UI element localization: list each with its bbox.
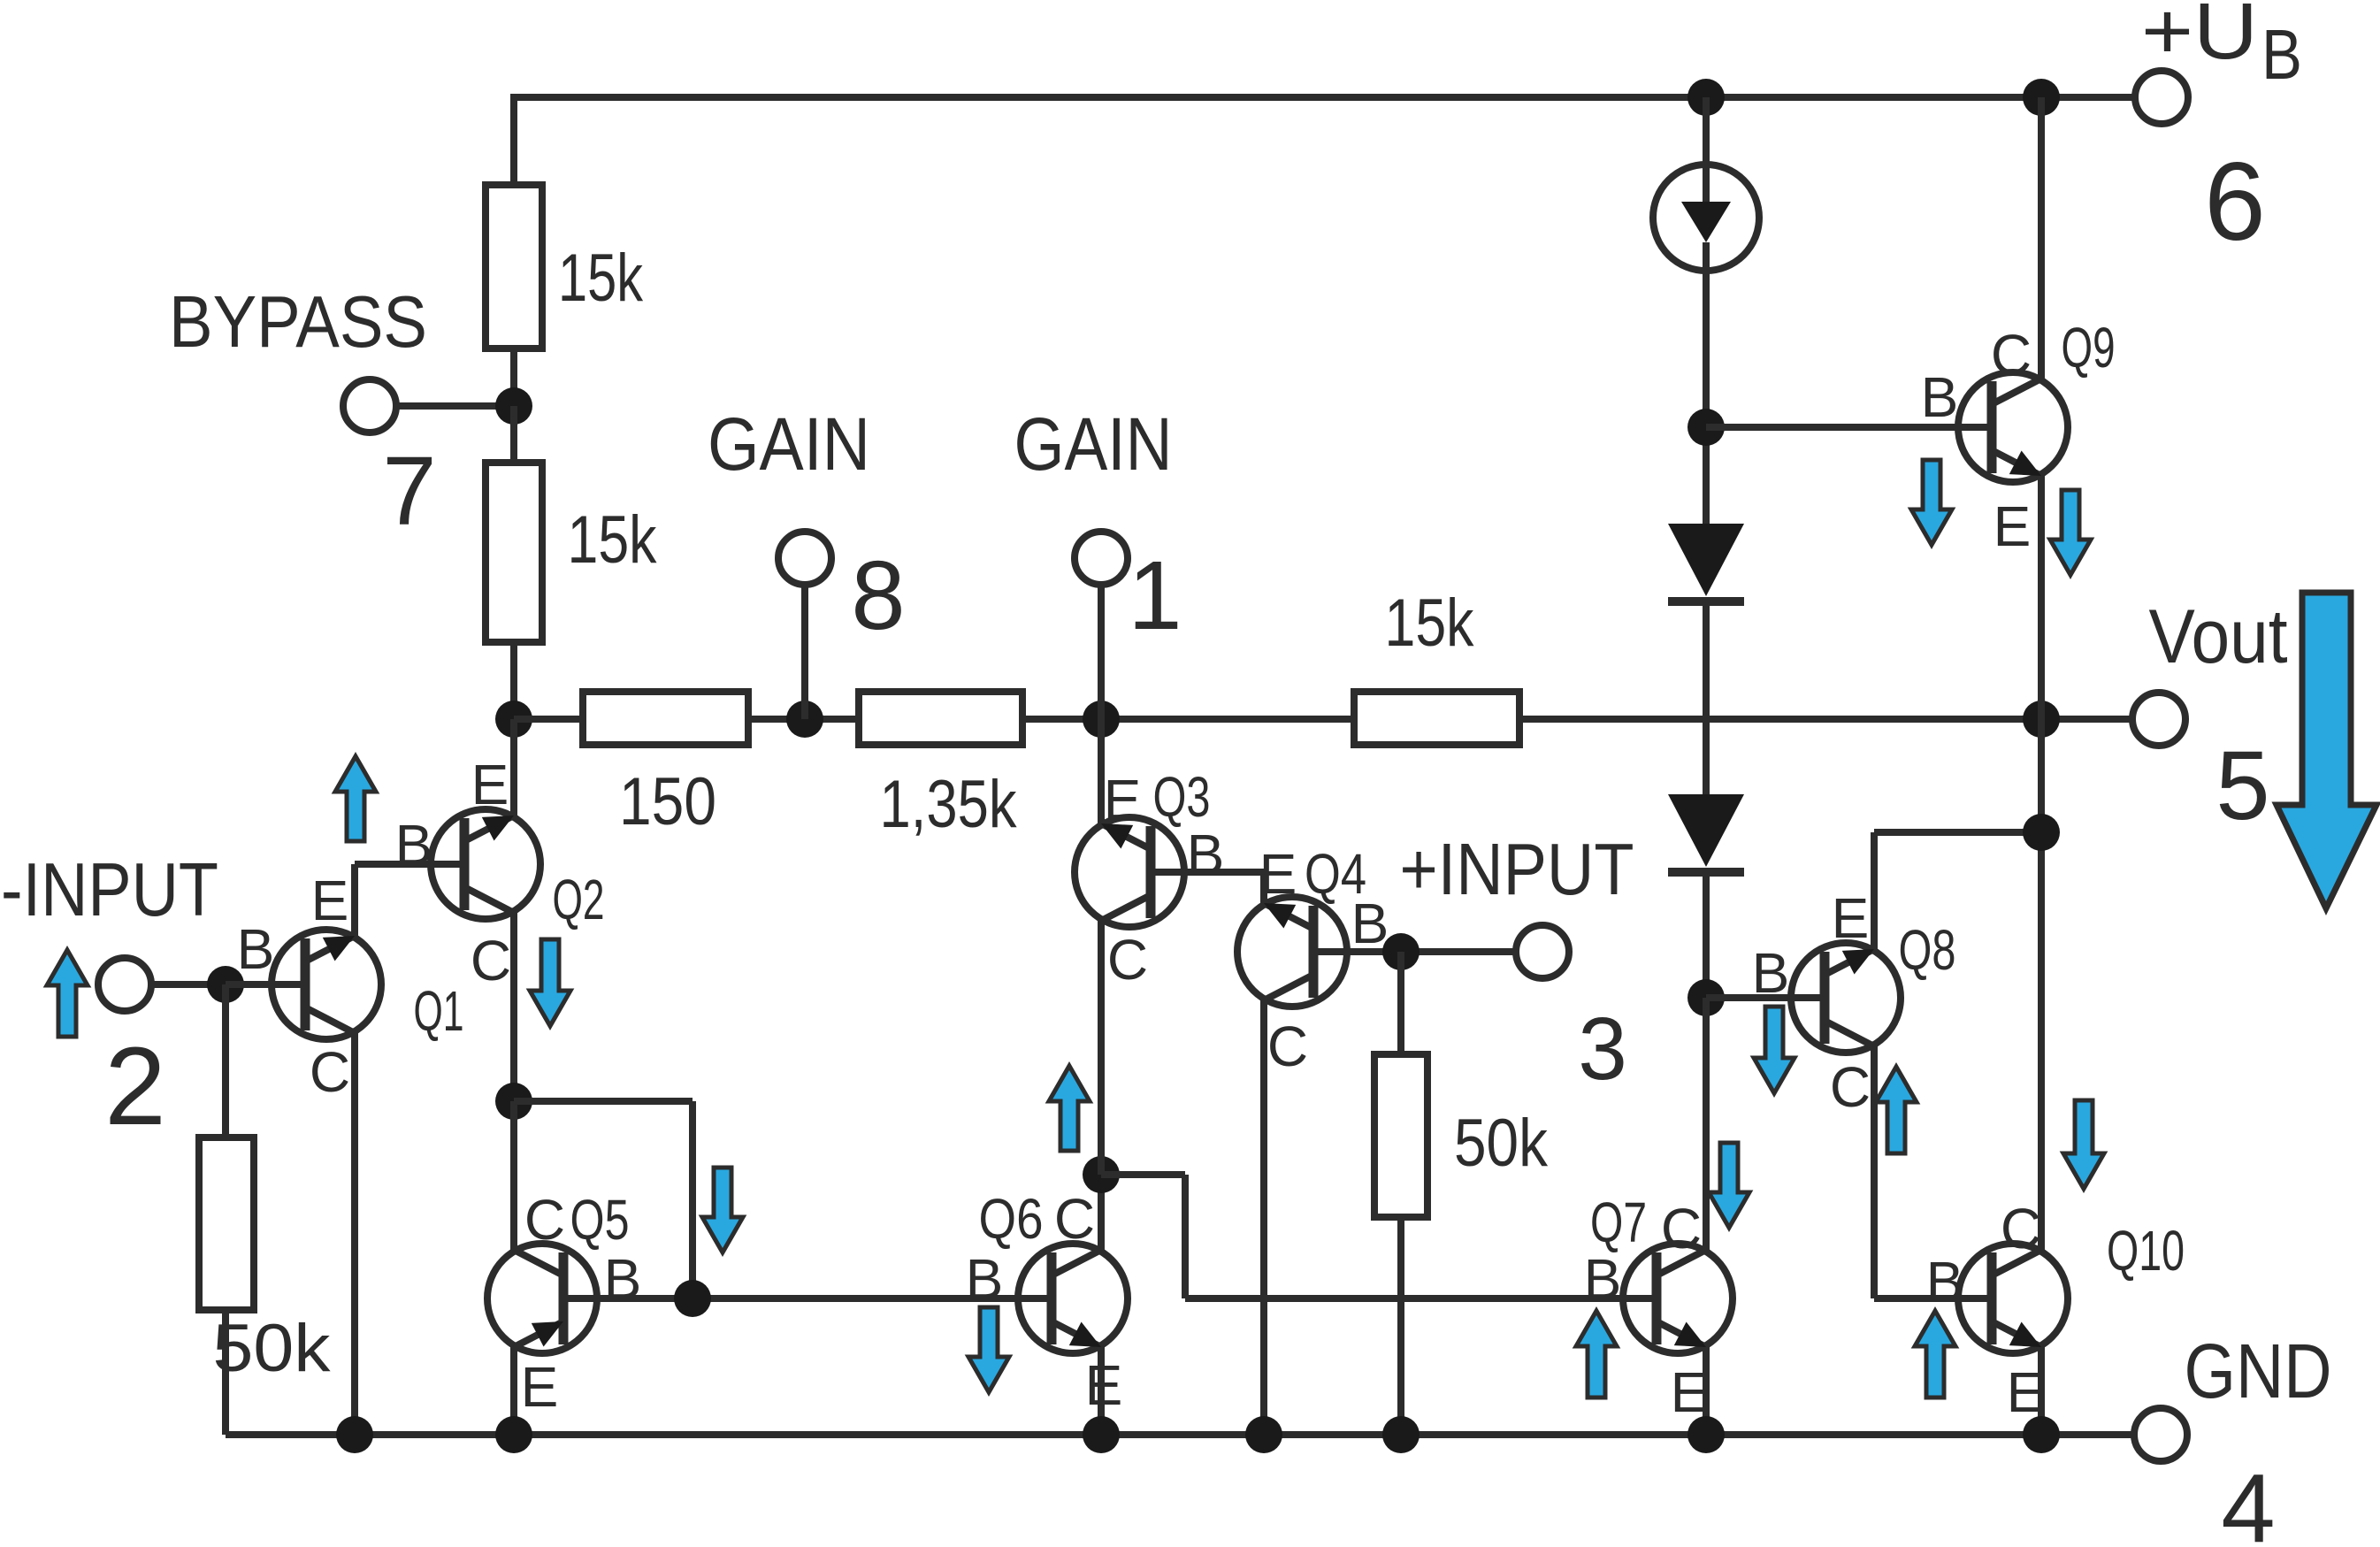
wire R6 to rail	[222, 1310, 229, 1435]
label Q4 C	[1267, 1015, 1308, 1078]
label Q9 E	[1994, 494, 2032, 558]
label Q4 E	[1259, 842, 1297, 906]
svg-text:150: 150	[619, 764, 716, 839]
svg-text:4: 4	[2221, 1454, 2275, 1547]
label Q7 name	[1590, 1191, 1647, 1254]
svg-text:Q3: Q3	[1153, 765, 1211, 829]
svg-text:+U: +U	[2141, 0, 2258, 76]
svg-text:Q1: Q1	[414, 979, 464, 1043]
node rail Q6E	[1083, 1416, 1120, 1453]
wire Q10 emitter down	[2038, 1347, 2045, 1435]
label R5 15k	[1385, 586, 1475, 661]
wire pin1 stem	[1098, 587, 1105, 719]
wire Q1 emitter up corner	[355, 864, 434, 936]
label pin 5	[2215, 731, 2269, 840]
wire Q8 emitter up	[1874, 832, 2041, 949]
current arrow Q10 collector side	[2063, 1100, 2104, 1189]
svg-text:15k: 15k	[558, 241, 644, 316]
node top rail colE	[2023, 79, 2060, 116]
node rail Q7E	[1687, 1416, 1725, 1453]
transistor Q9	[1958, 372, 2068, 482]
wire mid rail seg3	[1022, 716, 1354, 723]
wire Q4 base lead	[1347, 948, 1513, 955]
svg-text:GND: GND	[2185, 1329, 2332, 1414]
resistor R7 50k	[1374, 1054, 1427, 1217]
transistor Q10	[1958, 1244, 2068, 1353]
wire Q8 base lead	[1706, 994, 1795, 1001]
label Q2 name	[553, 868, 605, 931]
svg-text:1,35k: 1,35k	[880, 767, 1018, 842]
label R7 50k	[1454, 1106, 1549, 1181]
svg-text:50k: 50k	[1454, 1106, 1549, 1181]
label Q3 name	[1153, 765, 1211, 829]
node Q2 collector junction	[495, 1083, 532, 1120]
label R1 15k	[558, 241, 644, 316]
label Q8 B	[1752, 941, 1790, 1005]
current source CS1	[1653, 165, 1759, 271]
node Q9 base tap	[1687, 409, 1725, 446]
wire R7 to rail	[1397, 1217, 1404, 1435]
current arrow input 2	[47, 950, 88, 1037]
svg-text:C: C	[310, 1040, 350, 1104]
svg-text:C: C	[1107, 928, 1148, 992]
svg-text:B: B	[1926, 1250, 1964, 1313]
svg-text:E: E	[1994, 494, 2032, 558]
node rail Q4C	[1245, 1416, 1282, 1453]
current arrow Q8 base side	[1754, 1007, 1795, 1093]
wire Q2 collector down	[510, 913, 517, 1101]
wire Q1 collector down	[351, 1033, 358, 1435]
resistor R4 1.35k	[859, 692, 1022, 745]
node Q5 base junction	[674, 1280, 711, 1317]
svg-text:E: E	[311, 869, 349, 932]
label +U	[2141, 0, 2258, 76]
svg-text:E: E	[471, 753, 509, 816]
wire Q5 emitter down	[510, 1347, 517, 1435]
label Q2 C	[471, 929, 511, 992]
svg-text:B: B	[1921, 365, 1959, 429]
current arrow Q7 base side	[1576, 1311, 1617, 1398]
wire Q6 emitter down	[1098, 1347, 1105, 1435]
svg-text:8: 8	[851, 541, 905, 650]
svg-text:+INPUT: +INPUT	[1400, 828, 1634, 910]
label Q3 C	[1107, 928, 1148, 992]
wire Q3 collector down	[1098, 921, 1105, 1175]
svg-text:1: 1	[1128, 541, 1182, 650]
label Q2 B	[395, 813, 433, 877]
svg-text:GAIN: GAIN	[1014, 402, 1173, 486]
label Q10 C	[2001, 1197, 2041, 1260]
node mid rail left	[495, 701, 532, 738]
label Q9 C	[1991, 323, 2032, 387]
wire D2 to Q8 base tap	[1703, 872, 1710, 998]
svg-text:C: C	[1991, 323, 2032, 387]
label Q8 C	[1830, 1055, 1871, 1119]
wire Q2C junction bend	[514, 1101, 693, 1298]
svg-text:E: E	[1259, 842, 1297, 906]
terminal +INPUT pin 3	[1516, 925, 1569, 978]
wire Q2 emitter to mid rail	[510, 719, 517, 816]
wire +UB top rail	[514, 94, 2132, 101]
node rail Q1C	[336, 1416, 373, 1453]
wire R1 to bypass node	[510, 348, 517, 406]
wire Q3 base to Q4 emitter	[1184, 872, 1264, 903]
wire GND bottom rail	[226, 1431, 2132, 1438]
label pin 7	[382, 437, 436, 546]
svg-text:3: 3	[1578, 999, 1627, 1099]
wire Q6 collector up	[1098, 1175, 1105, 1250]
label Q9 B	[1921, 365, 1959, 429]
terminal GND pin 4	[2134, 1408, 2187, 1461]
svg-text:E: E	[1832, 886, 1870, 950]
wire bypass to R2	[510, 406, 517, 463]
wire CS1 to Q9-base node	[1703, 271, 1710, 525]
label Q10 name	[2107, 1219, 2185, 1283]
wire R2 to mid rail	[510, 642, 517, 719]
wire D1 to D2	[1703, 601, 1710, 794]
svg-text:B: B	[1187, 823, 1225, 886]
label Q1 E	[311, 869, 349, 932]
svg-text:B: B	[1752, 941, 1790, 1005]
resistor R3 150	[583, 692, 748, 745]
transistor Q1	[272, 930, 381, 1039]
label Q6 B	[966, 1247, 1004, 1311]
svg-text:C: C	[1054, 1187, 1095, 1251]
label Q3 E	[1104, 768, 1142, 831]
svg-text:C: C	[524, 1188, 565, 1252]
label Q10 B	[1926, 1250, 1964, 1313]
terminal GAIN pin 8	[778, 532, 831, 585]
svg-text:BYPASS: BYPASS	[169, 280, 427, 363]
label +INPUT	[1400, 828, 1634, 910]
label Q8 name	[1899, 918, 1956, 982]
label Q5 E	[521, 1355, 559, 1419]
label Q7 B	[1584, 1247, 1622, 1311]
label Q1 name	[414, 979, 464, 1043]
label Q3 B	[1187, 823, 1225, 886]
node mid rail gain1	[1083, 701, 1120, 738]
current arrow Q5 base drop	[702, 1168, 743, 1252]
label Q1 C	[310, 1040, 350, 1104]
label GND	[2185, 1329, 2332, 1414]
current arrow Q6 base side	[968, 1307, 1009, 1392]
svg-text:2: 2	[104, 1025, 166, 1148]
wire Q3 emitter up	[1098, 719, 1105, 823]
current arrow Q10 base side	[1915, 1311, 1955, 1398]
label Vout	[2149, 594, 2288, 679]
wire junction to Q1 base	[226, 981, 275, 988]
label BYPASS	[169, 280, 427, 363]
current arrow Q2 emitter side	[335, 756, 376, 841]
wire Q9 collector up	[2038, 97, 2045, 379]
label Q4 B	[1351, 892, 1389, 955]
label pin 2	[104, 1025, 166, 1148]
wire top-left corner down to R1	[510, 94, 517, 185]
transistor Q6	[1018, 1244, 1128, 1353]
svg-text:B: B	[237, 917, 275, 981]
terminal GAIN pin 1	[1075, 532, 1128, 585]
terminal +UB pin 6	[2135, 71, 2188, 124]
transistor Q8	[1791, 943, 1901, 1053]
node rail Q10E	[2023, 1416, 2060, 1453]
wire mid rail seg2	[748, 716, 859, 723]
resistor R5 15k	[1354, 692, 1519, 745]
terminal -INPUT pin 2	[98, 958, 151, 1011]
svg-text:Q6: Q6	[979, 1187, 1044, 1251]
current arrow Q6 collector up	[1049, 1066, 1090, 1151]
label Q6 C	[1054, 1187, 1095, 1251]
node bypass junction	[495, 387, 532, 425]
current arrow Q8 collector side	[1876, 1067, 1917, 1153]
svg-text:15k: 15k	[568, 502, 658, 578]
label Q6 name	[979, 1187, 1044, 1251]
svg-text:Q9: Q9	[2062, 316, 2116, 379]
node rail Q5E	[495, 1416, 532, 1453]
node +INPUT junction	[1382, 933, 1420, 970]
label Q2 E	[471, 753, 509, 816]
svg-text:Q8: Q8	[1899, 918, 1956, 982]
svg-text:C: C	[2001, 1197, 2041, 1260]
wire Q3C junction bend to Q7 base	[1101, 1175, 1626, 1298]
current arrow Q2 collector side	[530, 939, 570, 1026]
svg-text:E: E	[1671, 1360, 1709, 1424]
wire Q7 emitter down	[1703, 1347, 1710, 1435]
node Vout junction	[2023, 701, 2060, 738]
label Q7 E	[1671, 1360, 1709, 1424]
label R2 15k	[568, 502, 658, 578]
label GAIN left	[708, 402, 870, 486]
label R6 50k	[213, 1311, 332, 1386]
wire mid rail seg1	[514, 716, 583, 723]
resistor R2 15k	[486, 463, 542, 642]
diode D1	[1668, 524, 1744, 601]
svg-text:Q10: Q10	[2107, 1219, 2185, 1283]
label Q8 E	[1832, 886, 1870, 950]
svg-text:B: B	[966, 1247, 1004, 1311]
wire colD to Q7 collector	[1703, 998, 1710, 1250]
wire Q5 base row	[597, 1295, 1018, 1302]
node mid rail gain8	[786, 701, 823, 738]
node top rail colD	[1687, 79, 1725, 116]
label Q5 B	[604, 1247, 642, 1311]
wire Q4 collector down	[1260, 1000, 1267, 1435]
terminal Vout pin 5	[2132, 693, 2185, 746]
svg-text:Q2: Q2	[553, 868, 605, 931]
label Q5 name	[570, 1188, 630, 1252]
svg-text:6: 6	[2204, 141, 2266, 264]
wire +INPUT junction to R7	[1397, 952, 1404, 1054]
node rail R7	[1382, 1416, 1420, 1453]
label Q9 name	[2062, 316, 2116, 379]
transistor Q7	[1623, 1244, 1733, 1353]
svg-text:15k: 15k	[1385, 586, 1475, 661]
label pin 4	[2221, 1454, 2275, 1547]
label Q1 B	[237, 917, 275, 981]
wire bypass terminal lead	[396, 402, 514, 410]
transistor Q5	[487, 1244, 597, 1353]
svg-text:E: E	[1104, 768, 1142, 831]
wire Q5 collector up	[510, 1101, 517, 1250]
svg-text:B: B	[2261, 15, 2302, 94]
svg-text:-INPUT: -INPUT	[1, 848, 218, 932]
svg-text:C: C	[1661, 1197, 1702, 1260]
wire colD top	[1703, 97, 1710, 166]
current arrow Q9 emitter side	[2050, 490, 2091, 575]
label pin 6	[2204, 141, 2266, 264]
wire pin2 lead	[151, 981, 226, 988]
label Q5 C	[524, 1188, 565, 1252]
transistor Q2	[431, 809, 540, 919]
svg-text:7: 7	[382, 437, 436, 546]
node pin2 junction	[207, 966, 244, 1003]
svg-text:Vout: Vout	[2149, 594, 2288, 679]
svg-text:C: C	[471, 929, 511, 992]
label Q4 name	[1305, 842, 1366, 906]
terminal BYPASS pin 7	[343, 379, 396, 433]
label pin 3	[1578, 999, 1627, 1099]
label -INPUT	[1, 848, 218, 932]
node Q8 emitter junction	[2023, 814, 2060, 851]
current arrow Q7 collector	[1709, 1143, 1749, 1228]
svg-text:C: C	[1830, 1055, 1871, 1119]
transistor Q4	[1237, 897, 1347, 1007]
label GAIN right	[1014, 402, 1173, 486]
label pin 8	[851, 541, 905, 650]
wire Q9 emitter down colE	[2038, 476, 2045, 1250]
label Q6 E	[1085, 1353, 1123, 1417]
svg-text:Q5: Q5	[570, 1188, 630, 1252]
svg-text:Q7: Q7	[1590, 1191, 1647, 1254]
big output arrow Vout	[2277, 593, 2376, 908]
wire Q8 collector down	[1874, 1046, 1962, 1298]
label R3 150	[619, 764, 716, 839]
svg-text:50k: 50k	[213, 1311, 332, 1386]
label UB subscript B	[2261, 15, 2302, 94]
label R4 1,35k	[880, 767, 1018, 842]
current arrow Q9 base side	[1911, 460, 1952, 545]
diode D2	[1668, 794, 1744, 872]
resistor R6 50k	[199, 1137, 254, 1310]
wire pin2 junction to R6	[222, 984, 229, 1137]
transistor Q3	[1075, 817, 1184, 927]
svg-text:GAIN: GAIN	[708, 402, 870, 486]
label Q10 E	[2007, 1360, 2045, 1424]
node Q3C junction	[1083, 1156, 1120, 1193]
svg-text:C: C	[1267, 1015, 1308, 1078]
wire Q9 base lead	[1706, 424, 1958, 431]
wire pin8 stem	[801, 587, 808, 719]
svg-text:B: B	[1351, 892, 1389, 955]
resistor R1 15k	[486, 185, 542, 348]
svg-text:B: B	[395, 813, 433, 877]
wire mid rail seg4	[1519, 716, 2130, 723]
label pin 1	[1128, 541, 1182, 650]
node Q8 base tap	[1687, 979, 1725, 1016]
svg-text:5: 5	[2215, 731, 2269, 840]
label Q7 C	[1661, 1197, 1702, 1260]
svg-text:E: E	[521, 1355, 559, 1419]
